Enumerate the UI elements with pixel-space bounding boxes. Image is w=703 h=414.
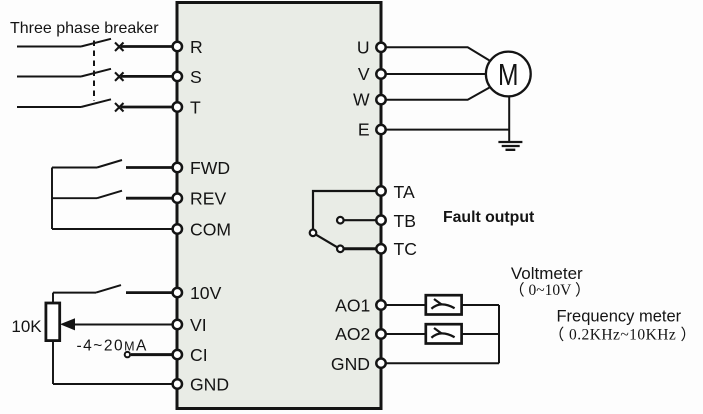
svg-text:W: W — [353, 90, 370, 110]
svg-text:U: U — [357, 37, 370, 57]
svg-text:TC: TC — [394, 239, 418, 259]
svg-text:Fault output: Fault output — [443, 209, 535, 226]
svg-text:10V: 10V — [190, 283, 222, 303]
svg-text:（ 0~10V ）: （ 0~10V ） — [509, 282, 590, 299]
svg-text:T: T — [190, 98, 201, 118]
svg-text:TB: TB — [394, 211, 416, 231]
svg-text:S: S — [190, 67, 202, 87]
svg-text:Voltmeter: Voltmeter — [511, 264, 583, 283]
svg-text:CI: CI — [190, 345, 208, 365]
svg-text:E: E — [358, 120, 370, 140]
svg-text:（ 0.2KHz~10KHz ）: （ 0.2KHz~10KHz ） — [549, 327, 697, 344]
svg-text:REV: REV — [190, 189, 226, 209]
svg-text:TA: TA — [394, 182, 415, 202]
svg-text:GND: GND — [331, 354, 370, 374]
svg-text:COM: COM — [190, 220, 231, 240]
svg-text:M: M — [498, 58, 519, 92]
svg-text:FWD: FWD — [190, 158, 230, 178]
svg-text:-4~20MA: -4~20MA — [77, 338, 148, 355]
svg-text:V: V — [358, 64, 370, 84]
svg-text:R: R — [190, 37, 203, 57]
svg-text:AO2: AO2 — [335, 324, 370, 344]
svg-text:10K: 10K — [11, 317, 42, 336]
svg-text:GND: GND — [190, 375, 229, 395]
svg-text:Frequency meter: Frequency meter — [556, 307, 681, 325]
svg-text:Three phase breaker: Three phase breaker — [10, 20, 159, 37]
svg-text:AO1: AO1 — [335, 295, 370, 315]
svg-text:VI: VI — [190, 315, 207, 335]
